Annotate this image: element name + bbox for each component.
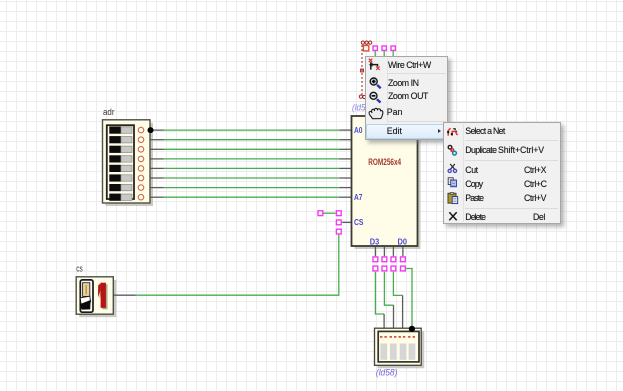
svg-text:CS: CS (354, 217, 364, 227)
svg-text:A7: A7 (354, 192, 363, 202)
svg-text:ROM256x4: ROM256x4 (368, 157, 401, 167)
svg-text:D3: D3 (370, 236, 380, 246)
svg-text:A0: A0 (354, 125, 363, 135)
svg-text:cs: cs (76, 264, 83, 274)
svg-text:(ld58): (ld58) (376, 368, 398, 379)
svg-text:adr: adr (103, 107, 115, 117)
svg-text:D0: D0 (398, 236, 408, 246)
